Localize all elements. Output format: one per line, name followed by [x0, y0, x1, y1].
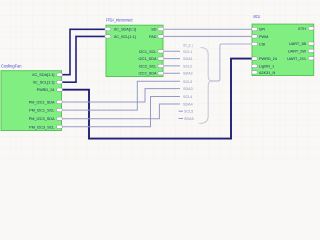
- svg-text:I2C1_SCL: I2C1_SCL: [139, 50, 157, 54]
- wire SD-SPI: [163, 28, 252, 30]
- svg-text:UART_3B: UART_3B: [289, 42, 306, 46]
- pin UART_3B (B3 right): [289, 42, 314, 46]
- svg-text:SCL5: SCL5: [184, 110, 193, 114]
- svg-text:SD: SD: [151, 28, 157, 32]
- svg-text:SCL2: SCL2: [183, 64, 192, 68]
- pin IIC_SDA[1:1] (B2 left): [105, 27, 136, 31]
- pin I2C1_SCL (B2 right): [139, 50, 164, 54]
- svg-text:SPI: SPI: [259, 28, 265, 32]
- svg-text:SCL4: SCL4: [183, 95, 192, 99]
- svg-text:PM_I2C1_SDA: PM_I2C1_SDA: [29, 100, 55, 104]
- svg-text:SCL3: SCL3: [183, 80, 192, 84]
- pin PWM (B3 left): [252, 35, 269, 39]
- svg-text:IIC_SCL[1:1]: IIC_SCL[1:1]: [33, 81, 55, 85]
- svg-text:PWRD_24: PWRD_24: [37, 88, 55, 92]
- sheet symbol CoolingFan: [1, 71, 62, 131]
- svg-text:PWM: PWM: [259, 35, 268, 39]
- svg-text:UART_JX1: UART_JX1: [287, 57, 306, 61]
- wire pin PM_I2C1_SCL to row SCL3: [62, 81, 181, 110]
- svg-text:ETH: ETH: [298, 27, 306, 31]
- pin IIC_SCL[1:1] (B2 left): [105, 35, 136, 39]
- pin UART_JX1 (B3 right): [287, 57, 314, 61]
- svg-text:PM_I2C3_SCL: PM_I2C3_SCL: [29, 125, 54, 129]
- svg-text:I2C2_SDA: I2C2_SDA: [139, 72, 157, 76]
- pin LightN_1 (B3 left): [252, 64, 275, 68]
- svg-text:LightN_1: LightN_1: [259, 64, 274, 68]
- wire SDA1 row: [163, 58, 180, 60]
- svg-text:SDA4: SDA4: [183, 103, 193, 107]
- sheet symbol FPGA_interconnect: [106, 25, 163, 76]
- sheet symbol MCU: [252, 24, 314, 75]
- svg-text:MCU: MCU: [254, 14, 261, 19]
- svg-text:SDA2: SDA2: [183, 72, 193, 76]
- svg-text:IIC_SDA[1:1]: IIC_SDA[1:1]: [114, 28, 136, 32]
- svg-text:IIC_SDA[1:1]: IIC_SDA[1:1]: [32, 73, 54, 77]
- svg-text:CoolingFan: CoolingFan: [1, 63, 22, 68]
- pin PM_I2C1_SCL (B1 right): [29, 108, 62, 112]
- pin PM_I2C3_SCL (B1 right): [29, 125, 62, 129]
- pin A2K31_N (B3 left): [252, 71, 276, 75]
- svg-text:UART_2W: UART_2W: [288, 49, 306, 53]
- svg-text:FPGA_interconnect: FPGA_interconnect: [106, 17, 133, 22]
- svg-text:I2C1_SDA: I2C1_SDA: [139, 57, 157, 61]
- pin I2C1_SDA (B2 right): [139, 57, 164, 61]
- wire net IIC_SDA (dark): [62, 29, 107, 74]
- svg-text:SDA5: SDA5: [184, 117, 194, 121]
- pin PAD (B2 right): [149, 35, 164, 39]
- svg-text:PWRD_24: PWRD_24: [259, 57, 277, 61]
- pin UART_2W (B3 right): [288, 49, 314, 53]
- wire SCL1 row: [163, 50, 180, 52]
- pin SPI (B3 left): [252, 27, 266, 31]
- svg-text:PM_I2C1_SCL: PM_I2C1_SCL: [29, 109, 54, 113]
- pin PWRD_24 (B3 left): [252, 57, 277, 61]
- wire harness to CSI: [211, 44, 252, 81]
- pin SD (B2 right): [151, 27, 164, 31]
- svg-text:I2C2_SCL: I2C2_SCL: [139, 64, 157, 68]
- wire SCL2 row: [163, 65, 180, 67]
- pin IIC_SDA[1:1] (B1 right): [32, 73, 62, 77]
- pin I2C2_SDA (B2 right): [139, 72, 164, 76]
- wire net IIC_SCL (dark): [62, 36, 107, 82]
- pin ETH (B3 right): [298, 27, 314, 31]
- faint grid: [0, 0, 318, 159]
- svg-text:IIC_SCL[1:1]: IIC_SCL[1:1]: [114, 35, 136, 39]
- pin I2C2_SCL (B2 right): [139, 64, 164, 68]
- svg-text:PM_I2C3_SDA: PM_I2C3_SDA: [29, 117, 55, 121]
- net label SDA5 (dangling): [179, 118, 184, 120]
- wire pin PM_I2C3_SDA to row SDA4: [62, 104, 181, 119]
- harness brace: [199, 48, 212, 124]
- svg-text:SDA1: SDA1: [183, 57, 193, 61]
- net label SCL5 (dangling): [179, 110, 184, 112]
- svg-text:PAD: PAD: [149, 35, 157, 39]
- svg-text:CSI: CSI: [259, 43, 265, 47]
- wire net PWRD_24 (dark thick): [62, 59, 253, 139]
- pin PWRD_24 (B1 right): [37, 88, 63, 92]
- wire SDA2 row: [163, 72, 180, 74]
- svg-text:I2C_s[..]: I2C_s[..]: [183, 44, 193, 48]
- wire PAD-PWM: [163, 35, 252, 37]
- wire pin PM_I2C1_SDA to row SDA3: [62, 89, 181, 102]
- pin PM_I2C3_SDA (B1 right): [29, 117, 63, 121]
- svg-text:SCL1: SCL1: [183, 50, 192, 54]
- pin CSI (B3 left): [252, 42, 266, 46]
- pin PM_I2C1_SDA (B1 right): [29, 100, 63, 104]
- wire pin PM_I2C3_SCL to row SCL4: [62, 97, 181, 127]
- svg-text:SDA3: SDA3: [183, 87, 193, 91]
- svg-text:A2K31_N: A2K31_N: [259, 71, 276, 75]
- pin IIC_SCL[1:1] (B1 right): [33, 81, 63, 85]
